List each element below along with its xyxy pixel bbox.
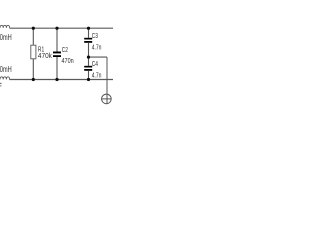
svg-text:0mH: 0mH (0, 65, 12, 74)
svg-text:4.7n: 4.7n (92, 43, 102, 52)
svg-text:470k: 470k (38, 51, 52, 60)
svg-text:4.7n: 4.7n (92, 71, 102, 80)
svg-text:470n: 470n (62, 56, 74, 65)
svg-text:C4: C4 (92, 59, 98, 68)
svg-text:C2: C2 (62, 45, 68, 54)
svg-text:C3: C3 (92, 31, 98, 40)
svg-text:0mH: 0mH (0, 33, 12, 42)
